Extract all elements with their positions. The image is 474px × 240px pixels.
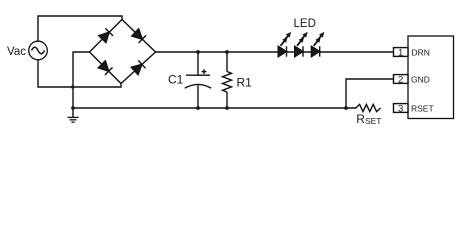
bridge rectifier diamond edges (90, 20, 156, 84)
diode D2 top-right (132, 28, 147, 43)
svg-text:C1: C1 (168, 73, 184, 87)
LED D6 (295, 30, 310, 56)
wire: GND pin wire (346, 79, 394, 108)
junction C1 top (196, 50, 200, 54)
LED D5 (278, 30, 293, 56)
junction: ground node (71, 106, 75, 110)
svg-text:RSET: RSET (356, 112, 381, 126)
pin 3 box (394, 104, 409, 113)
junction R1 top (225, 50, 229, 54)
pin 2 box (394, 75, 409, 84)
junction RSET/GND node (344, 106, 348, 110)
capacitor C1 (197, 52, 199, 75)
resistor RSET (356, 104, 381, 111)
diode D1 top-left (98, 28, 113, 43)
svg-text:3: 3 (398, 104, 403, 115)
svg-text:RSET: RSET (411, 103, 434, 113)
ground (68, 117, 79, 122)
junction R1 bottom (225, 106, 229, 110)
wire: bottom ground rail (73, 107, 356, 109)
pin 1 box (394, 48, 409, 57)
junction: AC bottom rail crossing (71, 85, 74, 88)
diode D3 bottom-left (98, 60, 113, 75)
svg-text:DRN: DRN (412, 47, 430, 57)
LED D7 (311, 30, 326, 56)
svg-text:Vac: Vac (7, 46, 26, 58)
svg-text:GND: GND (411, 74, 430, 84)
svg-text:LED: LED (294, 18, 316, 30)
svg-text:R1: R1 (237, 76, 253, 90)
voltage source Vac (29, 41, 48, 60)
wire: bridge left corner to ground vertical (73, 52, 90, 117)
resistor R1 (226, 52, 228, 72)
svg-text:1: 1 (398, 48, 403, 59)
IC U1 body (408, 36, 454, 119)
wire: top AC wire from Vac to bridge top (38, 16, 122, 41)
svg-text:2: 2 (398, 75, 403, 86)
wire: main top rail from bridge right corner to IC pin 1 (156, 51, 394, 53)
junction C1 bottom (196, 106, 200, 110)
diode D4 bottom-right (131, 60, 146, 75)
wire: Vac bottom to AC bottom rail (38, 60, 121, 87)
